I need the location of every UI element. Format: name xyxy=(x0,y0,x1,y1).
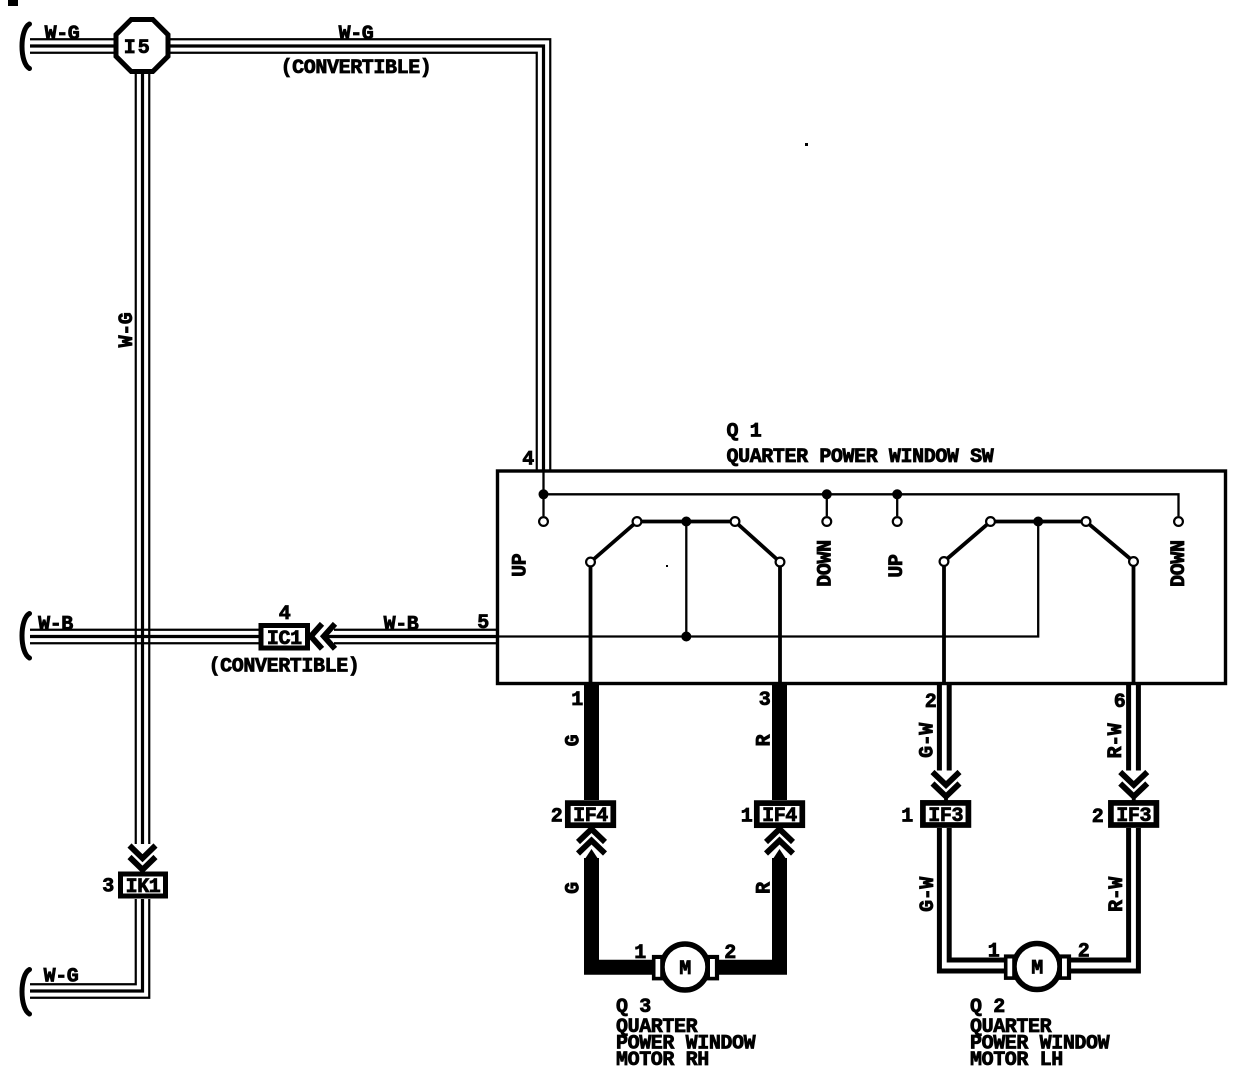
svg-text:G-W: G-W xyxy=(917,723,940,758)
svg-text:M: M xyxy=(679,958,691,981)
svg-text:4: 4 xyxy=(522,449,534,472)
svg-text:MOTOR LH: MOTOR LH xyxy=(970,1049,1063,1068)
svg-text:M: M xyxy=(1031,957,1043,980)
svg-text:(CONVERTIBLE): (CONVERTIBLE) xyxy=(281,57,432,80)
svg-text:G: G xyxy=(563,734,586,746)
svg-text:IF4: IF4 xyxy=(762,805,797,828)
svg-text:2: 2 xyxy=(1078,941,1090,964)
svg-text:1: 1 xyxy=(571,689,583,712)
svg-text:R-W: R-W xyxy=(1106,877,1129,912)
svg-text:1: 1 xyxy=(988,941,1000,964)
svg-text:DOWN: DOWN xyxy=(1168,540,1191,586)
svg-text:2: 2 xyxy=(925,691,937,714)
svg-text:5: 5 xyxy=(477,612,489,635)
svg-text:G-W: G-W xyxy=(917,877,940,912)
svg-text:IC1: IC1 xyxy=(267,628,302,651)
svg-text:DOWN: DOWN xyxy=(815,540,838,586)
svg-text:UP: UP xyxy=(510,553,533,577)
svg-text:W-B: W-B xyxy=(38,614,73,637)
svg-text:Q 1: Q 1 xyxy=(727,421,762,444)
svg-text:IF3: IF3 xyxy=(1116,805,1151,828)
svg-text:W-G: W-G xyxy=(45,23,80,46)
svg-text:MOTOR RH: MOTOR RH xyxy=(616,1049,709,1068)
svg-text:R-W: R-W xyxy=(1105,723,1128,758)
svg-text:UP: UP xyxy=(886,554,909,578)
svg-text:W-B: W-B xyxy=(384,614,419,637)
svg-text:I: I xyxy=(124,37,136,60)
svg-text:4: 4 xyxy=(279,603,291,626)
svg-text:IF3: IF3 xyxy=(928,805,963,828)
svg-text:W-G: W-G xyxy=(339,23,374,46)
svg-text:W-G: W-G xyxy=(116,312,139,347)
svg-text:G: G xyxy=(563,882,586,894)
svg-text:R: R xyxy=(754,734,777,746)
svg-text:1: 1 xyxy=(901,806,913,829)
svg-text:1: 1 xyxy=(634,942,646,965)
svg-text:3: 3 xyxy=(102,876,114,899)
svg-text:IK1: IK1 xyxy=(126,876,161,899)
svg-text:(CONVERTIBLE): (CONVERTIBLE) xyxy=(209,656,360,679)
svg-text:2: 2 xyxy=(724,942,736,965)
svg-text:QUARTER POWER WINDOW SW: QUARTER POWER WINDOW SW xyxy=(727,446,994,469)
svg-text:1: 1 xyxy=(741,806,753,829)
svg-text:3: 3 xyxy=(759,689,771,712)
svg-text:6: 6 xyxy=(1114,691,1126,714)
svg-text:IF4: IF4 xyxy=(573,805,608,828)
svg-text:W-G: W-G xyxy=(44,966,79,989)
svg-text:R: R xyxy=(754,882,777,894)
svg-text:2: 2 xyxy=(551,806,563,829)
svg-text:5: 5 xyxy=(138,37,150,60)
svg-text:2: 2 xyxy=(1092,806,1104,829)
